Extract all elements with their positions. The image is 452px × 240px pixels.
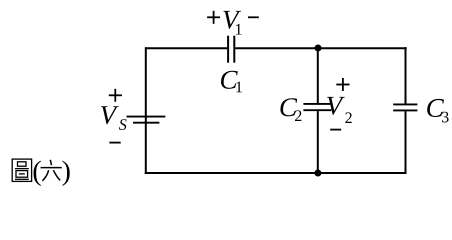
battery Vs plates — [127, 117, 166, 123]
label V1 — [223, 11, 241, 35]
label plus sign of Vs — [109, 89, 122, 102]
wire middle branch top segment — [317, 48, 319, 103]
label C3 — [427, 99, 448, 123]
wire bottom — [145, 172, 407, 174]
wire right vertical bottom segment — [405, 111, 407, 174]
wire top left segment — [145, 47, 227, 49]
label Vs — [101, 106, 127, 130]
wire right vertical top segment — [405, 47, 407, 103]
caption glyph LIU (six) — [41, 160, 62, 181]
capacitor C3 — [393, 104, 417, 110]
caption close parenthesis — [63, 161, 70, 186]
capacitor C1 — [228, 36, 234, 63]
wire top right segment — [235, 47, 406, 49]
label C2 — [280, 98, 301, 121]
capacitor C2 — [303, 104, 331, 110]
label plus sign of V1 — [207, 11, 220, 24]
node top junction — [315, 45, 322, 52]
label plus sign of V2 — [336, 78, 349, 91]
label C1 — [221, 71, 242, 92]
node bottom junction — [314, 170, 321, 177]
label minus sign of V2 — [330, 129, 341, 131]
label minus sign of Vs — [109, 142, 120, 144]
caption open parenthesis — [34, 161, 41, 186]
wire left vertical — [145, 47, 147, 174]
label V2 — [327, 97, 352, 123]
label minus sign of V1 — [248, 16, 259, 18]
wire middle branch bottom segment — [317, 111, 319, 173]
caption glyph TU (figure) — [12, 159, 31, 181]
